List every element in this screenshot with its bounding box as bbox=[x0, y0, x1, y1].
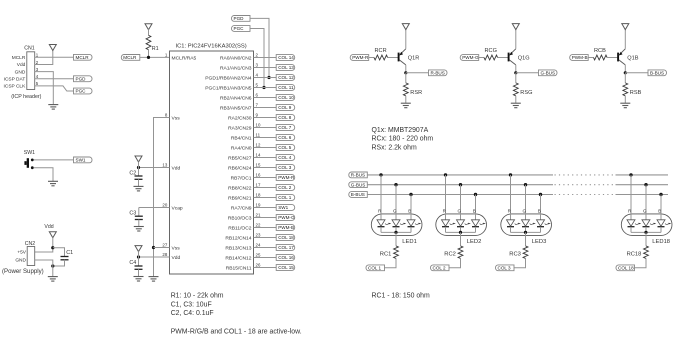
svg-text:22: 22 bbox=[256, 223, 261, 228]
svg-text:RB7/OC1: RB7/OC1 bbox=[231, 175, 252, 181]
wire CN1 pin1 to MCLR tag bbox=[35, 56, 74, 58]
svg-text:25: 25 bbox=[256, 253, 261, 258]
svg-text:19: 19 bbox=[256, 203, 261, 208]
svg-text:RA2/CN30: RA2/CN30 bbox=[228, 115, 252, 121]
svg-text:COL 1: COL 1 bbox=[278, 195, 292, 200]
svg-text:COL 18: COL 18 bbox=[618, 265, 634, 270]
svg-text:26: 26 bbox=[256, 263, 261, 268]
svg-text:RB15/CN11: RB15/CN11 bbox=[226, 265, 252, 271]
net tag B-BUS (driver) bbox=[648, 70, 667, 76]
IC1 pin 8 Vss wire to ground rail bbox=[154, 118, 170, 277]
svg-text:RB13/CN13: RB13/CN13 bbox=[225, 245, 251, 251]
wire G-BUS solid segment bbox=[367, 184, 553, 186]
net tag R-BUS (driver) bbox=[429, 70, 448, 76]
svg-text:RCG: RCG bbox=[485, 48, 497, 54]
resistor RSR bbox=[405, 73, 407, 83]
svg-text:RB3/AN5/CN7: RB3/AN5/CN7 bbox=[220, 105, 252, 111]
svg-text:Vss: Vss bbox=[172, 245, 181, 251]
resistor RC3 bbox=[523, 246, 528, 259]
ground (SW1) bbox=[48, 181, 58, 186]
wire LED1 R anode drop bbox=[380, 175, 382, 220]
wire LED2 R anode drop bbox=[445, 175, 447, 220]
wire emitter Q1R to Vdd bbox=[405, 29, 407, 49]
svg-text:12: 12 bbox=[256, 143, 261, 148]
svg-text:RB14/CN12: RB14/CN12 bbox=[225, 255, 251, 261]
svg-text:LED2: LED2 bbox=[467, 239, 482, 245]
svg-text:COL 7: COL 7 bbox=[278, 125, 292, 130]
svg-text:LED18: LED18 bbox=[652, 239, 670, 245]
svg-text:RA3/CN29: RA3/CN29 bbox=[228, 125, 252, 131]
net tag PGC (at CN1) bbox=[74, 88, 93, 94]
svg-text:R-BUS: R-BUS bbox=[351, 173, 365, 178]
net tag PWM-B bbox=[570, 55, 589, 61]
node R-BUS junction bbox=[404, 71, 407, 74]
net tag PWM-G bbox=[460, 55, 479, 61]
net tag COL 17 (pin 24) bbox=[276, 245, 295, 251]
node LED3 G bus junction bbox=[524, 183, 527, 186]
svg-text:RB10/OC3: RB10/OC3 bbox=[228, 215, 252, 221]
IC1 pin 27 Vss wire bbox=[154, 247, 170, 249]
connector CN1 (ICP header) bbox=[4, 45, 42, 100]
svg-text:R1: R1 bbox=[152, 46, 159, 52]
node pin28 Vdd junction bbox=[137, 255, 140, 258]
net tag COL 1 (LED column) bbox=[366, 265, 385, 271]
note transistor values bbox=[372, 127, 434, 151]
net tag PWM-B (pin 22) bbox=[276, 225, 295, 231]
svg-text:24: 24 bbox=[256, 243, 261, 248]
wire RCR to base bbox=[388, 57, 399, 59]
svg-text:RSB: RSB bbox=[630, 90, 642, 96]
svg-text:(Power Supply): (Power Supply) bbox=[2, 268, 44, 275]
net tag MCLR (at IC1) bbox=[121, 55, 140, 61]
svg-text:G-BUS: G-BUS bbox=[351, 182, 366, 187]
resistor RSB bbox=[624, 73, 626, 83]
svg-text:PWM-G: PWM-G bbox=[462, 55, 479, 60]
resistor RCB bbox=[594, 55, 608, 60]
ground (C4) bbox=[134, 277, 144, 282]
RGB LED LED18 package bbox=[621, 214, 672, 236]
net tag PGD (at IC1) bbox=[232, 16, 251, 22]
LED LED2 B diode bbox=[472, 220, 480, 226]
wire LED1 common cathode rail bbox=[381, 231, 411, 233]
power symbol Vdd (CN1) bbox=[49, 45, 56, 51]
svg-text:MCLR: MCLR bbox=[12, 55, 26, 61]
svg-text:RB9/CN21: RB9/CN21 bbox=[228, 195, 252, 201]
power symbol Vdd (R1) bbox=[145, 24, 152, 30]
node LED1 cathode junction bbox=[394, 231, 397, 234]
resistor RSG bbox=[515, 73, 517, 83]
LED LED1 G diode bbox=[392, 220, 400, 226]
svg-text:Vdd: Vdd bbox=[172, 165, 181, 171]
wire B-BUS solid segment bbox=[367, 194, 553, 196]
wire node to R-BUS tag bbox=[406, 72, 429, 74]
svg-text:20: 20 bbox=[162, 202, 167, 207]
wire R-BUS right segment bbox=[616, 174, 669, 176]
resistor R1 bbox=[146, 35, 151, 49]
net tag MCLR (at CN1) bbox=[74, 54, 93, 60]
svg-text:COL 9: COL 9 bbox=[278, 105, 292, 110]
svg-text:RC2: RC2 bbox=[444, 251, 456, 257]
wire RC2 to COL 2 tag bbox=[449, 258, 461, 267]
LED LED1 B diode bbox=[407, 220, 415, 226]
svg-text:G: G bbox=[458, 208, 462, 213]
svg-text:R-BUS: R-BUS bbox=[431, 70, 445, 75]
net tag COL 11 (pin 5) bbox=[276, 85, 295, 91]
wire LED2 G anode drop bbox=[460, 185, 462, 220]
node LED1 R bus junction bbox=[379, 173, 382, 176]
net tag COL 7 (pin 10) bbox=[276, 125, 295, 131]
transistor Q1G (PNP MMBT2907A) bbox=[509, 49, 530, 65]
svg-text:COL 14: COL 14 bbox=[278, 55, 294, 60]
wire node to G-BUS tag bbox=[516, 72, 539, 74]
net tag COL 2 (LED column) bbox=[431, 265, 450, 271]
svg-text:SW1: SW1 bbox=[278, 205, 288, 210]
svg-text:COL 6: COL 6 bbox=[278, 135, 292, 140]
svg-text:RB11/OC2: RB11/OC2 bbox=[228, 225, 252, 231]
node PGC/pin5 junction bbox=[262, 86, 265, 89]
net tag PGC (at IC1) bbox=[232, 26, 251, 32]
svg-text:COL 11: COL 11 bbox=[278, 85, 294, 90]
svg-text:B: B bbox=[658, 208, 661, 213]
wire LED3 R anode drop bbox=[510, 175, 512, 220]
wire R-BUS solid segment bbox=[367, 174, 553, 176]
node LED18 cathode junction bbox=[644, 231, 647, 234]
svg-text:RCB: RCB bbox=[594, 48, 606, 54]
power symbol Vdd (pin 13) bbox=[135, 156, 142, 162]
svg-text:15: 15 bbox=[256, 163, 261, 168]
svg-text:10: 10 bbox=[256, 123, 261, 128]
LED LED2 G emission arrow bbox=[465, 224, 468, 225]
svg-text:PWM-R: PWM-R bbox=[352, 55, 369, 60]
svg-text:G: G bbox=[523, 208, 527, 213]
net tag COL 18 (pin 23) bbox=[276, 235, 295, 241]
node LED3 B bus junction bbox=[539, 193, 542, 196]
IC1 pin 4 PGD1/RB0/AN2/CN4 wire bbox=[254, 77, 277, 79]
wire collector Q1G to bus node bbox=[515, 65, 517, 73]
net tag G-BUS (driver) bbox=[539, 70, 558, 76]
IC1 pin 22 RB11/OC2 wire bbox=[254, 227, 277, 229]
svg-text:COL 4: COL 4 bbox=[278, 155, 292, 160]
wire LED18 G anode drop bbox=[645, 185, 647, 220]
svg-text:SW1: SW1 bbox=[24, 150, 35, 156]
resistor RC1 bbox=[394, 246, 399, 259]
net tag COL 1 (pin 18) bbox=[276, 195, 295, 201]
svg-text:+5V: +5V bbox=[17, 250, 26, 256]
ground (RSB) bbox=[620, 103, 630, 108]
wire R1 to MCLR node bbox=[148, 50, 150, 58]
svg-text:G: G bbox=[643, 208, 647, 213]
svg-text:B: B bbox=[538, 208, 541, 213]
IC1 pin 13 Vdd wire bbox=[139, 167, 170, 169]
wire RC1 to COL 1 tag bbox=[385, 258, 397, 267]
wire emitter Q1G to Vdd bbox=[515, 29, 517, 49]
node B-BUS junction bbox=[624, 71, 627, 74]
svg-text:COL 2: COL 2 bbox=[433, 265, 447, 270]
net tag PWM-R (pin 16) bbox=[276, 175, 295, 181]
svg-text:RC3: RC3 bbox=[509, 251, 521, 257]
IC1 pin 21 RB10/OC3 wire bbox=[254, 217, 277, 219]
svg-text:LED1: LED1 bbox=[402, 239, 417, 245]
power symbol Vdd (Q1B) bbox=[622, 24, 629, 30]
wire PWM-G to RCG bbox=[479, 57, 484, 59]
svg-text:RSR: RSR bbox=[410, 90, 422, 96]
svg-text:Q1R: Q1R bbox=[408, 55, 420, 61]
svg-text:14: 14 bbox=[256, 153, 261, 158]
svg-text:COL 5: COL 5 bbox=[278, 145, 292, 150]
wire CN1 pin5 to PGC tag bbox=[35, 86, 74, 91]
svg-text:PWM-B: PWM-B bbox=[278, 225, 294, 230]
LED LED1 R emission arrow bbox=[385, 224, 388, 225]
power symbol Vdd (Q1G) bbox=[512, 24, 519, 30]
svg-text:RB4/CN1: RB4/CN1 bbox=[231, 135, 252, 141]
wire RCB to base bbox=[607, 57, 618, 59]
svg-text:SW1: SW1 bbox=[76, 158, 86, 163]
wire SW1 to ground bbox=[34, 168, 54, 182]
svg-text:Q1G: Q1G bbox=[518, 55, 530, 61]
node LED1 G bus junction bbox=[394, 183, 397, 186]
IC1 pin 12 RA4/CN0 wire bbox=[254, 147, 277, 149]
node LED3 cathode junction bbox=[524, 231, 527, 234]
wire CN1 pin3 to ground bbox=[35, 72, 54, 105]
RGB LED LED3 package bbox=[501, 214, 552, 236]
net tag COL 18 (LED column) bbox=[616, 265, 635, 271]
net tag R-BUS (bus) bbox=[349, 172, 368, 178]
IC1 pin 18 RB9/CN21 wire bbox=[254, 197, 277, 199]
node +5V junction bbox=[51, 246, 54, 249]
IC1 pin 26 RB15/CN11 wire bbox=[254, 267, 277, 269]
svg-text:COL 10: COL 10 bbox=[278, 95, 294, 100]
svg-text:B-BUS: B-BUS bbox=[650, 70, 664, 75]
svg-text:COL 13: COL 13 bbox=[278, 65, 294, 70]
LED LED1 R diode bbox=[377, 220, 385, 226]
svg-text:PWM-B: PWM-B bbox=[572, 55, 588, 60]
svg-text:(ICP header): (ICP header) bbox=[11, 94, 41, 100]
svg-text:C2, C4: 0.1uF: C2, C4: 0.1uF bbox=[171, 310, 214, 317]
svg-text:COL 2: COL 2 bbox=[278, 185, 292, 190]
pushbutton SW1 bbox=[24, 150, 35, 169]
LED LED18 R diode bbox=[627, 220, 635, 226]
net tag COL 3 (pin 15) bbox=[276, 165, 295, 171]
wire RCG to base bbox=[498, 57, 509, 59]
transistor Q1B (PNP MMBT2907A) bbox=[618, 49, 639, 65]
ground (CN1) bbox=[48, 105, 58, 110]
svg-text:PWM-G: PWM-G bbox=[278, 215, 295, 220]
net tag B-BUS (bus) bbox=[349, 192, 368, 198]
svg-text:COL 16: COL 16 bbox=[278, 255, 294, 260]
LED LED1 B emission arrow bbox=[415, 224, 418, 225]
wire LED3 common cathode rail bbox=[511, 231, 541, 233]
svg-text:R1: 10 - 22k ohm: R1: 10 - 22k ohm bbox=[171, 293, 224, 300]
node LED18 G bus junction bbox=[644, 183, 647, 186]
wire PWM-B to RCB bbox=[588, 57, 593, 59]
resistor RCR bbox=[374, 55, 388, 60]
svg-text:21: 21 bbox=[256, 213, 261, 218]
svg-text:PWM-R: PWM-R bbox=[278, 175, 295, 180]
wire LED1 G anode drop bbox=[395, 185, 397, 220]
svg-text:PGC: PGC bbox=[76, 89, 87, 94]
svg-text:COL 17: COL 17 bbox=[278, 245, 294, 250]
LED LED18 G emission arrow bbox=[650, 224, 653, 225]
net tag COL 3 (LED column) bbox=[496, 265, 515, 271]
svg-text:27: 27 bbox=[162, 242, 167, 247]
net tag COL 5 (pin 12) bbox=[276, 145, 295, 151]
resistor RCG bbox=[484, 55, 498, 60]
wire LED18 B anode drop bbox=[660, 195, 662, 220]
net tag COL 8 (pin 9) bbox=[276, 115, 295, 121]
svg-text:11: 11 bbox=[256, 133, 261, 138]
svg-text:23: 23 bbox=[256, 233, 261, 238]
LED LED18 B diode bbox=[657, 220, 665, 226]
wire LED3 G anode drop bbox=[525, 185, 527, 220]
svg-text:C1: C1 bbox=[66, 250, 73, 256]
note passive values bbox=[171, 293, 224, 318]
svg-text:CN1: CN1 bbox=[24, 45, 34, 51]
svg-text:PGD: PGD bbox=[76, 76, 87, 81]
net tag COL 15 (pin 26) bbox=[276, 265, 295, 271]
svg-text:COL 3: COL 3 bbox=[498, 265, 512, 270]
RGB LED LED1 package bbox=[371, 214, 422, 236]
svg-text:PGD1/RB0/AN2/CN4: PGD1/RB0/AN2/CN4 bbox=[205, 75, 251, 81]
wire Vdd to CN2 +5V bbox=[35, 237, 53, 252]
wire RC3 to COL 3 tag bbox=[514, 258, 526, 267]
svg-text:28: 28 bbox=[162, 252, 167, 257]
svg-text:Q1x: MMBT2907A: Q1x: MMBT2907A bbox=[372, 127, 429, 134]
svg-text:RCx: 180 - 220 ohm: RCx: 180 - 220 ohm bbox=[372, 136, 434, 143]
wire RC18 to COL 18 tag bbox=[635, 258, 647, 267]
LED LED3 G diode bbox=[522, 220, 530, 226]
svg-text:RA7/CN9: RA7/CN9 bbox=[231, 205, 252, 211]
power symbol Vdd (Q1R) bbox=[402, 24, 409, 30]
wire B-BUS dotted continuation bbox=[555, 194, 616, 196]
wire CN1 pin4 to PGD tag bbox=[35, 78, 74, 80]
wire CN2 GND to ground bbox=[35, 260, 53, 277]
svg-text:17: 17 bbox=[256, 183, 261, 188]
svg-text:RSG: RSG bbox=[520, 90, 532, 96]
LED LED3 B diode bbox=[537, 220, 545, 226]
svg-text:RCR: RCR bbox=[375, 48, 387, 54]
net tag G-BUS (bus) bbox=[349, 182, 368, 188]
resistor RC2 bbox=[458, 246, 463, 259]
svg-text:RB6/CN24: RB6/CN24 bbox=[228, 165, 252, 171]
wire LED2 common cathode rail bbox=[446, 231, 476, 233]
svg-text:B: B bbox=[473, 208, 476, 213]
wire R-BUS dotted continuation bbox=[555, 174, 616, 176]
svg-text:MCLR: MCLR bbox=[123, 55, 137, 60]
IC1 pin 6 RB2/AN4/CN6 wire bbox=[254, 97, 277, 99]
wire CN1 pin2 to Vdd bbox=[35, 50, 53, 64]
IC1 pin 23 RB12/CN14 wire bbox=[254, 237, 277, 239]
LED LED2 B emission arrow bbox=[480, 224, 483, 225]
node R1/MCLR junction bbox=[147, 56, 150, 59]
IC1 pin 11 RB4/CN1 wire bbox=[254, 137, 277, 139]
IC1 pin 3 RA1/AN1/CN3 wire bbox=[254, 67, 277, 69]
node pin27 junction on Vss rail bbox=[152, 246, 155, 249]
IC1 pin 14 RB5/CN27 wire bbox=[254, 157, 277, 159]
node PGD/pin4 junction bbox=[267, 76, 270, 79]
wire C1 bottom to GND net bbox=[53, 260, 65, 266]
svg-text:GND: GND bbox=[15, 258, 26, 264]
svg-text:COL 3: COL 3 bbox=[278, 165, 292, 170]
IC1 pin 9 RA2/CN30 wire bbox=[254, 117, 277, 119]
svg-text:IC1: PIC24FV16KA302(SS): IC1: PIC24FV16KA302(SS) bbox=[176, 44, 247, 50]
svg-text:PGC1/RB1/AN3/CN5: PGC1/RB1/AN3/CN5 bbox=[205, 85, 251, 91]
svg-text:Vdd: Vdd bbox=[172, 255, 181, 261]
ground (Vss rail) bbox=[149, 277, 159, 282]
IC1 pin 10 RA3/CN29 wire bbox=[254, 127, 277, 129]
node LED2 cathode junction bbox=[459, 231, 462, 234]
wire emitter Q1B to Vdd bbox=[624, 29, 626, 49]
svg-text:RC18: RC18 bbox=[627, 251, 642, 257]
LED LED2 R emission arrow bbox=[450, 224, 453, 225]
connector CN2 (Power Supply) bbox=[2, 241, 44, 275]
svg-text:Vdd: Vdd bbox=[44, 224, 53, 230]
RGB LED LED2 package bbox=[436, 214, 487, 236]
ground (RSG) bbox=[511, 103, 521, 108]
IC1 pin 19 RA7/CN9 wire bbox=[254, 207, 277, 209]
node G-BUS junction bbox=[514, 71, 517, 74]
IC1 pin 24 RB13/CN13 wire bbox=[254, 247, 277, 249]
IC1 pin 2 RA0/AN0/CN2 wire bbox=[254, 57, 277, 59]
wire PGC to pin 5 bbox=[250, 29, 264, 88]
wire LED2 B anode drop bbox=[475, 195, 477, 220]
svg-text:ICSP DAT: ICSP DAT bbox=[4, 76, 26, 82]
net tag PGD (at CN1) bbox=[74, 76, 93, 82]
IC1 pin 16 RB7/OC1 wire bbox=[254, 177, 277, 179]
node LED18 R bus junction bbox=[629, 173, 632, 176]
wire SW1 to SW1 tag bbox=[34, 159, 74, 161]
wire LED18 cathode to RC resistor bbox=[645, 232, 647, 246]
wire +5V branch to C1 bbox=[53, 248, 65, 257]
wire collector Q1R to bus node bbox=[405, 65, 407, 73]
wire MCLR to IC1 pin 1 bbox=[140, 56, 170, 58]
ground (RSR) bbox=[401, 103, 411, 108]
svg-text:B: B bbox=[408, 208, 411, 213]
svg-text:RA1/AN1/CN3: RA1/AN1/CN3 bbox=[220, 65, 252, 71]
svg-text:PGC: PGC bbox=[234, 26, 245, 31]
LED LED1 G emission arrow bbox=[400, 224, 403, 225]
svg-text:ICSP CLK: ICSP CLK bbox=[4, 84, 27, 90]
IC1 pin 15 RB6/CN24 wire bbox=[254, 167, 277, 169]
power symbol Vdd (pin 28) bbox=[135, 246, 142, 252]
svg-text:COL 18: COL 18 bbox=[278, 235, 294, 240]
node LED2 B bus junction bbox=[474, 193, 477, 196]
svg-text:LED3: LED3 bbox=[532, 239, 547, 245]
wire LED18 common cathode rail bbox=[631, 231, 661, 233]
node LED18 B bus junction bbox=[659, 193, 662, 196]
LED LED2 R diode bbox=[442, 220, 450, 226]
IC1 pin 7 RB3/AN5/CN7 wire bbox=[254, 107, 277, 109]
node LED2 R bus junction bbox=[444, 173, 447, 176]
LED LED3 R diode bbox=[507, 220, 515, 226]
LED LED3 B emission arrow bbox=[545, 224, 548, 225]
svg-text:RC1 - 18: 150 ohm: RC1 - 18: 150 ohm bbox=[372, 293, 430, 300]
LED LED2 G diode bbox=[457, 220, 465, 226]
svg-text:RB2/AN4/CN6: RB2/AN4/CN6 bbox=[220, 95, 252, 101]
wire G-BUS right segment bbox=[616, 184, 669, 186]
resistor RC18 bbox=[644, 246, 649, 259]
svg-text:G-BUS: G-BUS bbox=[541, 70, 556, 75]
net tag COL 6 (pin 11) bbox=[276, 135, 295, 141]
svg-text:Q1B: Q1B bbox=[627, 55, 638, 61]
svg-text:RA4/CN0: RA4/CN0 bbox=[231, 145, 252, 151]
net tag SW1 (pin 19) bbox=[276, 205, 295, 211]
svg-text:GND: GND bbox=[15, 69, 26, 75]
transistor Q1R (PNP MMBT2907A) bbox=[399, 49, 420, 65]
svg-text:PWM-R/G/B and COL1 - 18 are ac: PWM-R/G/B and COL1 - 18 are active-low. bbox=[171, 329, 302, 336]
wire PGD to pin 4 bbox=[250, 18, 269, 77]
IC1 pin 20 Vcap wire bbox=[139, 207, 170, 209]
svg-text:RSx: 2.2k ohm: RSx: 2.2k ohm bbox=[372, 144, 417, 151]
